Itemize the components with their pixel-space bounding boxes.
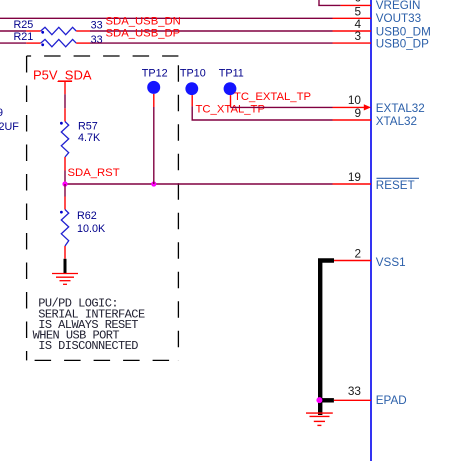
- dashed annotation box: [27, 56, 179, 360]
- svg-text:TP12: TP12: [142, 68, 168, 80]
- label R62: [77, 210, 97, 222]
- ground (R62): [52, 259, 78, 285]
- svg-text:R21: R21: [14, 31, 34, 43]
- pin 5 VOUT33: [333, 17, 372, 19]
- svg-text:USB0_DP: USB0_DP: [376, 37, 429, 50]
- svg-text:TP11: TP11: [219, 68, 244, 80]
- svg-text:33: 33: [91, 34, 103, 46]
- pin number 4: [354, 17, 361, 31]
- svg-text:P5V_SDA: P5V_SDA: [33, 68, 92, 83]
- svg-text:RESET: RESET: [376, 179, 415, 192]
- svg-text:19: 19: [348, 170, 361, 184]
- pin 3 USB0_DP: [333, 42, 372, 44]
- wire net VOUT33: [0, 17, 333, 19]
- pin name EPAD: [376, 394, 407, 407]
- svg-text:3: 3: [354, 29, 361, 43]
- svg-text:VREGIN: VREGIN: [376, 0, 421, 12]
- pin name VSS1: [376, 256, 406, 269]
- pin number 10: [348, 93, 362, 107]
- svg-text:2UF: 2UF: [0, 121, 19, 133]
- pin number 3: [354, 29, 361, 43]
- wire left of R21: [0, 42, 26, 44]
- partial value 2.2UF (cut off at left edge): [0, 121, 19, 133]
- net label SDA_USB_DN: [106, 15, 181, 27]
- pin name XTAL32: [376, 115, 417, 128]
- wire net SDA_RST: [65, 183, 333, 185]
- pin 6 VREGIN wire: [318, 0, 371, 5]
- svg-text:VOUT33: VOUT33: [376, 12, 421, 25]
- pin number 33: [348, 384, 362, 398]
- pin name EXTAL32: [376, 102, 425, 115]
- junction node SDA_RST at R57: [62, 181, 67, 186]
- net label SDA_USB_DP: [106, 28, 181, 40]
- test point TP10: [180, 68, 206, 107]
- junction node at EPAD: [316, 397, 322, 403]
- svg-text:SDA_RST: SDA_RST: [68, 167, 120, 179]
- resistor R57: [60, 108, 69, 170]
- pin 4 USB0_DM: [333, 30, 372, 32]
- svg-text:R62: R62: [77, 210, 97, 222]
- pin number 19: [348, 170, 361, 184]
- junction node SDA_RST at TP12: [151, 181, 156, 186]
- pin 9 XTAL32: [333, 119, 372, 121]
- label R21: [14, 31, 34, 43]
- pin number 5: [354, 4, 361, 18]
- svg-text:33: 33: [91, 20, 103, 32]
- pin name VOUT33: [376, 12, 421, 25]
- pin name RESET (with overbar): [376, 178, 419, 192]
- resistor R21: [26, 39, 90, 46]
- pin 33 EPAD: [334, 399, 371, 401]
- thick ground bus wire VSS1-EPAD: [318, 261, 334, 416]
- wire left of R25: [0, 30, 26, 32]
- ground (EPAD): [306, 413, 333, 425]
- net label TC_EXTAL_TP: [234, 91, 311, 103]
- pin number 2: [354, 246, 361, 260]
- svg-text:EXTAL32: EXTAL32: [376, 102, 425, 115]
- wire TP10 to pin 9: [192, 106, 332, 120]
- wire net SDA_USB_DN: [90, 30, 333, 32]
- value 33 (R21): [91, 34, 103, 46]
- wire SDA_RST to R62: [64, 184, 66, 197]
- value 10.0K: [77, 223, 106, 235]
- label R57: [78, 121, 98, 133]
- value 4.7K: [78, 132, 101, 144]
- svg-text:9: 9: [0, 107, 3, 119]
- partial label C9 (cut off at left edge): [0, 107, 3, 119]
- pin number 9: [354, 106, 361, 120]
- pin name VREGIN: [376, 0, 421, 12]
- value 33 (R25): [91, 20, 103, 32]
- note text PU/PD logic: [33, 297, 145, 353]
- net label SDA_RST: [68, 167, 120, 179]
- net label TC_XTAL_TP: [196, 104, 265, 116]
- pin name USB0_DM: [376, 25, 431, 38]
- svg-text:R25: R25: [14, 19, 34, 31]
- svg-text:R57: R57: [78, 121, 98, 133]
- test point TP11: [219, 68, 244, 108]
- svg-text:TP10: TP10: [180, 68, 206, 80]
- svg-text:SDA_USB_DN: SDA_USB_DN: [106, 15, 181, 27]
- power symbol P5V_SDA: [33, 68, 92, 95]
- label R25: [14, 19, 34, 31]
- svg-text:33: 33: [348, 384, 362, 398]
- test point TP12: [142, 68, 168, 108]
- resistor R62: [60, 197, 69, 259]
- svg-text:10: 10: [348, 93, 362, 107]
- svg-text:VSS1: VSS1: [376, 256, 406, 269]
- resistor R25: [26, 27, 90, 34]
- svg-text:IS DISCONNECTED: IS DISCONNECTED: [38, 339, 138, 353]
- wire P5V_SDA to R57: [64, 94, 66, 108]
- svg-text:10.0K: 10.0K: [77, 223, 106, 235]
- svg-text:4.7K: 4.7K: [78, 132, 101, 144]
- svg-text:EPAD: EPAD: [376, 394, 407, 407]
- pin number 6: [354, 0, 361, 5]
- pin 19 RESET: [333, 183, 372, 185]
- IC U1 body edge: [370, 0, 372, 461]
- pin 2 VSS1: [334, 260, 371, 262]
- wire R57 to node SDA_RST: [64, 171, 66, 185]
- wire net SDA_USB_DP: [90, 42, 333, 44]
- pin name USB0_DP: [376, 37, 429, 50]
- svg-text:XTAL32: XTAL32: [376, 115, 417, 128]
- svg-text:2: 2: [354, 246, 361, 260]
- wire TP11 to pin 10: [231, 106, 333, 108]
- svg-text:TC_EXTAL_TP: TC_EXTAL_TP: [234, 91, 311, 103]
- pin 10 EXTAL32 (with arrow): [333, 104, 372, 110]
- svg-text:SDA_USB_DP: SDA_USB_DP: [106, 28, 181, 40]
- wire TP12 to SDA_RST: [153, 107, 155, 184]
- svg-text:9: 9: [354, 106, 361, 120]
